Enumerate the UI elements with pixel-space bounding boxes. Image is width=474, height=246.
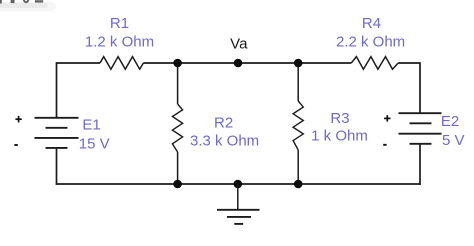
resistor R2 <box>172 104 182 152</box>
svg-text:2.2 k Ohm: 2.2 k Ohm <box>336 33 405 50</box>
battery E1 <box>35 118 79 148</box>
svg-text:15 V: 15 V <box>79 136 110 153</box>
svg-text:R2: R2 <box>214 114 233 131</box>
resistor R1 <box>100 57 143 70</box>
wire E2 bottom lead <box>419 144 421 185</box>
wire top right segment <box>398 63 420 113</box>
node dot R2 junction bottom <box>173 180 182 189</box>
ground <box>217 184 260 224</box>
wire R2 branch bottom <box>177 152 179 184</box>
svg-text:R1: R1 <box>110 15 129 32</box>
svg-text:E1: E1 <box>82 117 100 134</box>
node dot R1-R2 junction top <box>173 59 182 68</box>
svg-text:1 k Ohm: 1 k Ohm <box>311 128 368 145</box>
cropped header text P fragment <box>0 0 2 4</box>
node Va dot <box>234 59 243 68</box>
wire bottom rail <box>56 183 421 185</box>
resistor R3 <box>293 101 303 150</box>
E2 minus sign <box>383 144 386 146</box>
E2 plus sign <box>384 115 390 121</box>
wire E1 bottom lead <box>56 148 58 185</box>
svg-text:R3: R3 <box>330 110 349 127</box>
node dot R3 junction bottom <box>294 180 303 189</box>
svg-text:3.3 k Ohm: 3.3 k Ohm <box>190 132 259 149</box>
node dot R3 junction top <box>294 59 303 68</box>
svg-text:Va: Va <box>230 35 248 52</box>
svg-text:1.2 k Ohm: 1.2 k Ohm <box>85 33 154 50</box>
cropped header text 2 fragment <box>35 0 43 2</box>
node dot ground junction <box>234 180 243 189</box>
wire top left segment <box>57 63 101 118</box>
svg-text:E2: E2 <box>441 113 459 130</box>
resistor R4 <box>351 57 398 70</box>
battery E2 <box>399 113 442 144</box>
wire top middle segment <box>143 62 351 64</box>
cropped header text 1 fragment <box>11 0 15 3</box>
svg-text:R4: R4 <box>362 15 381 32</box>
E1 minus sign <box>14 144 17 146</box>
wire R2 branch top <box>177 63 179 104</box>
wire R3 branch top <box>297 63 299 101</box>
cropped header text 0 fragment <box>24 0 28 2</box>
E1 plus sign <box>15 116 21 122</box>
svg-text:5 V: 5 V <box>442 132 465 149</box>
cropped header highlight <box>0 2 56 11</box>
wire R3 branch bottom <box>297 150 299 184</box>
